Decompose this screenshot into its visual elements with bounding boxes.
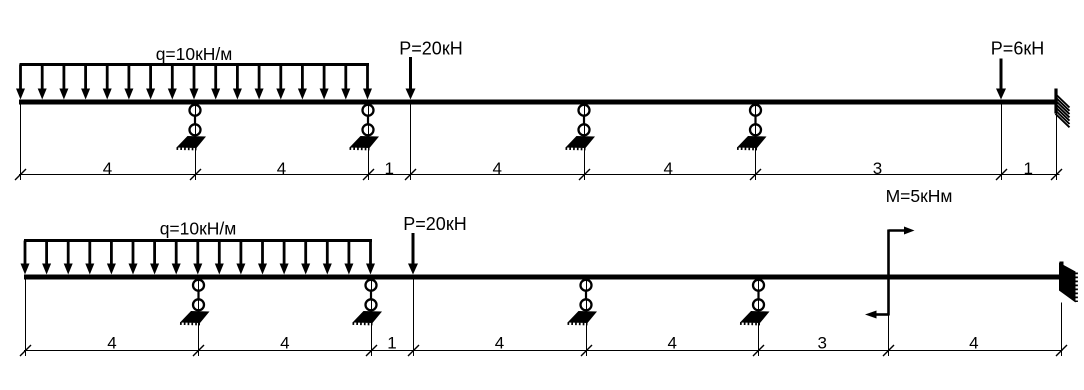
fixed support (filled wall block) at right end of beam 2 [1059,262,1077,303]
svg-text:q=10кН/м: q=10кН/м [160,219,237,239]
svg-text:4: 4 [663,159,672,178]
dimension line of beam 2 with slash ticks [20,345,1067,356]
roller support 4 of beam 2 at x=758.5 [740,280,770,324]
svg-text:4: 4 [969,334,978,353]
svg-text:3: 3 [817,334,826,353]
beam 1 (top beam) [19,100,1057,105]
beam 2 (bottom beam) [24,275,1060,280]
dimension line of beam 1 with slash ticks [15,169,1062,180]
svg-text:q=10кН/м: q=10кН/м [156,44,233,64]
svg-text:4: 4 [667,334,676,353]
dimension numbers 4 4 1 4 4 3 4 (beam 2) [107,334,978,353]
svg-text:4: 4 [103,159,112,178]
roller support 2 of beam 2 at x=371 [353,280,383,324]
svg-text:1: 1 [387,334,396,353]
svg-text:4: 4 [280,334,289,353]
svg-text:M=5кНм: M=5кНм [886,186,953,206]
distributed load q=10kN/m on beam 1 (17 arrows) [16,65,372,100]
svg-text:1: 1 [384,159,393,178]
extension lines (beam 2 dimension witness lines) [26,280,1062,357]
roller support 3 of beam 2 at x=586 [568,280,598,324]
extension lines (beam 1 dimension witness lines) [21,105,1057,181]
svg-text:1: 1 [1023,159,1032,178]
svg-text:4: 4 [492,159,501,178]
roller support 4 of beam 1 at x=755.5 [737,105,767,149]
svg-text:P=6кН: P=6кН [991,39,1044,59]
roller support 3 of beam 1 at x=584 [566,105,596,149]
roller support 2 of beam 1 at x=368 [350,105,380,149]
svg-text:4: 4 [107,334,116,353]
roller support 1 of beam 2 at x=198.5 [180,280,210,324]
distributed load q=10kN/m on beam 2 (17 arrows) [21,241,376,275]
roller support 1 of beam 1 at x=195 [177,105,207,149]
force arrow P=20кН on beam 1 [406,57,416,100]
svg-text:4: 4 [277,159,286,178]
moment couple symbol M on beam 2 at x=888.5 [865,227,915,319]
svg-text:P=20кН: P=20кН [399,39,462,59]
dimension numbers 4 4 1 4 4 3 1 (beam 1) [103,159,1033,178]
force arrow P=20кН on beam 2 [408,233,418,275]
svg-text:4: 4 [495,334,504,353]
svg-text:3: 3 [873,159,882,178]
fixed support (wall) at right end of beam 1 [1056,89,1070,128]
force arrow P=6кН on beam 1 [996,59,1006,100]
svg-text:P=20кН: P=20кН [403,214,466,234]
